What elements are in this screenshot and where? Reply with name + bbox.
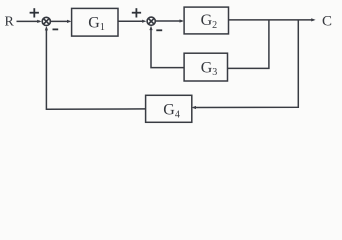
svg-text:C: C [322,14,332,30]
svg-text:R: R [5,15,15,30]
